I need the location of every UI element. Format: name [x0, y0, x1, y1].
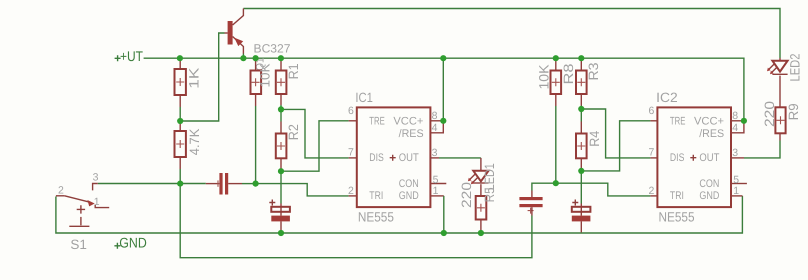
pin 3 — [731, 157, 744, 159]
junction C1 right node — [253, 181, 259, 187]
transistor Q1 BC327 — [225, 9, 291, 71]
wire collector top bus — [243, 9, 780, 59]
wire TRI1 (C1 node to pin 2) — [256, 184, 349, 196]
junction VCC2 pins node — [741, 118, 747, 124]
svg-text:R8: R8 — [561, 64, 576, 85]
pin 7 — [650, 157, 657, 159]
junction C2 bus node — [278, 230, 284, 236]
resistor R2 — [276, 109, 301, 171]
svg-text:4: 4 — [432, 122, 438, 134]
resistor R1 — [276, 58, 301, 109]
wire VCC1 (rail to pins 8/4) — [442, 58, 444, 121]
resistor 10K (stage 1, to C1) — [251, 58, 273, 183]
svg-text:1K: 1K — [187, 68, 202, 89]
junction rail R3 — [578, 55, 584, 61]
junction R2 bottom node — [278, 168, 284, 174]
IC1 NE555 — [348, 90, 446, 224]
resistor R4 — [576, 109, 602, 171]
svg-text:GND: GND — [699, 190, 719, 202]
svg-text:TRE: TRE — [670, 116, 686, 128]
junction GND1 bus node — [441, 230, 447, 236]
junction rail R8 — [553, 55, 559, 61]
junction R3/R4 node — [578, 106, 584, 112]
svg-text:6: 6 — [649, 105, 655, 117]
svg-text:4: 4 — [732, 122, 738, 134]
svg-text:TRE: TRE — [369, 116, 385, 128]
svg-text:10K: 10K — [536, 65, 551, 90]
resistor R5 220 — [459, 182, 497, 233]
switch S1 — [56, 172, 109, 252]
resistor R9 220 — [762, 101, 801, 141]
pin 3 — [430, 157, 439, 159]
svg-text:1: 1 — [94, 196, 100, 208]
junction VCC1 pins node — [440, 118, 446, 124]
pin 5 — [430, 183, 446, 185]
pin 2 — [650, 195, 657, 197]
svg-text:OUT: OUT — [699, 152, 719, 164]
svg-text:R1: R1 — [286, 63, 301, 79]
junction rail emitter — [240, 55, 246, 61]
wire TRE1 (R2 bottom to pin 6) — [281, 121, 349, 171]
svg-text:7: 7 — [348, 147, 354, 159]
IC2 NE555 — [649, 90, 747, 224]
wire DIS2 (R3/R4 node to pin 7) — [581, 109, 650, 158]
capacitor C4 polarized — [572, 171, 591, 233]
wire GND1 (pin 1 to bus) — [443, 196, 445, 233]
svg-text:3: 3 — [732, 147, 738, 159]
svg-text:TRI: TRI — [670, 190, 684, 202]
wire TRE2 (R4 bottom to pin 6) — [581, 121, 650, 171]
wire TRI2 (C3 node to pin 2) — [556, 183, 651, 196]
svg-text:GND: GND — [119, 234, 147, 250]
wire base net — [180, 33, 224, 121]
pin 4 — [731, 123, 744, 133]
net +UT label — [115, 48, 144, 64]
svg-text:1: 1 — [733, 185, 739, 197]
junction C3 top node — [553, 180, 559, 186]
svg-text:IC1: IC1 — [355, 90, 373, 105]
pin 5 — [731, 183, 747, 185]
wire lower rail (timing node to C3) — [180, 184, 532, 258]
svg-text:/RES: /RES — [399, 128, 424, 140]
svg-text:LED1: LED1 — [482, 163, 497, 190]
svg-text:8: 8 — [432, 110, 438, 122]
junction rail R1 — [278, 55, 284, 61]
svg-text:NE555: NE555 — [659, 210, 695, 225]
junction timing node — [177, 181, 183, 187]
junction base node — [177, 118, 183, 124]
svg-text:LED2: LED2 — [787, 54, 802, 82]
svg-text:R9: R9 — [786, 103, 801, 120]
junction rail VCC1 — [440, 55, 446, 61]
svg-text:8: 8 — [732, 110, 738, 122]
svg-text:220: 220 — [459, 182, 474, 208]
svg-text:3: 3 — [93, 172, 99, 184]
resistor R3 — [576, 58, 601, 109]
junction R5 bus node — [478, 230, 484, 236]
capacitor C2 polarized — [269, 171, 290, 232]
svg-text:1: 1 — [433, 185, 439, 197]
pin 1 — [731, 195, 742, 197]
svg-text:10K: 10K — [258, 64, 273, 88]
svg-text:GND: GND — [399, 190, 419, 202]
svg-text:/RES: /RES — [699, 128, 724, 140]
svg-text:3: 3 — [432, 147, 438, 159]
LED LED1 — [468, 158, 497, 196]
resistor 1K — [175, 58, 202, 121]
svg-text:2: 2 — [58, 185, 64, 197]
svg-text:TRI: TRI — [369, 190, 383, 202]
svg-text:IC2: IC2 — [656, 90, 678, 105]
svg-text:6: 6 — [348, 105, 354, 117]
svg-text:2: 2 — [649, 185, 655, 197]
resistor R8 10K (stage2) — [536, 58, 576, 183]
wire OUT1 to LED1 — [439, 157, 481, 159]
svg-text:DIS: DIS — [369, 152, 384, 164]
pin 7 — [349, 157, 357, 159]
wire +UT rail — [144, 58, 744, 121]
svg-text:220: 220 — [762, 101, 777, 127]
pin 6 — [349, 120, 357, 122]
wire DIS1 (R1/R2 node to pin 7) — [281, 109, 349, 157]
wire OUT2 to R9 — [744, 141, 780, 158]
svg-text:R5: R5 — [482, 187, 497, 202]
resistor 4.7K — [175, 121, 202, 184]
svg-text:OUT: OUT — [399, 152, 419, 164]
junction rail 10K — [253, 55, 259, 61]
svg-text:R2: R2 — [286, 124, 301, 140]
svg-text:R3: R3 — [586, 63, 601, 81]
pin 4 — [430, 123, 443, 133]
svg-text:R4: R4 — [587, 130, 602, 146]
svg-text:CON: CON — [399, 178, 419, 190]
svg-text:DIS: DIS — [670, 152, 685, 164]
svg-text:S1: S1 — [70, 237, 87, 252]
LED LED2 — [767, 54, 802, 108]
junction R4 bottom node — [578, 168, 584, 174]
net GND label — [114, 234, 146, 250]
svg-text:BC327: BC327 — [254, 41, 291, 55]
pin 6 — [650, 120, 657, 122]
svg-text:7: 7 — [649, 147, 655, 159]
svg-text:4.7K: 4.7K — [187, 129, 202, 156]
capacitor C1 — [206, 173, 256, 195]
svg-text:CON: CON — [699, 178, 719, 190]
junction R1/R2 node — [278, 106, 284, 112]
pin 2 — [349, 195, 357, 197]
svg-text:VCC+: VCC+ — [694, 116, 724, 128]
wire GND bus — [56, 196, 743, 233]
pin 8 — [430, 120, 443, 122]
junction rail 1K — [177, 55, 183, 61]
svg-text:+UT: +UT — [120, 48, 143, 64]
svg-text:VCC+: VCC+ — [393, 116, 423, 128]
svg-text:NE555: NE555 — [358, 210, 394, 225]
wire switch node to C1 — [98, 183, 206, 185]
svg-text:2: 2 — [348, 185, 354, 197]
pin 8 — [731, 120, 744, 122]
pin 1 — [430, 195, 443, 197]
capacitor C3 — [519, 183, 555, 215]
